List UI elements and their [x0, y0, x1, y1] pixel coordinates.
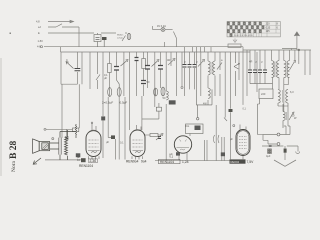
svg-text:REN1104: REN1104 — [160, 160, 174, 164]
svg-text:4-8: 4-8 — [37, 45, 41, 49]
svg-text:9o4: 9o4 — [141, 160, 147, 164]
svg-text:REN1104: REN1104 — [79, 164, 93, 168]
svg-text:7,5V: 7,5V — [247, 160, 255, 164]
svg-text:0,5µF: 0,5µF — [120, 101, 128, 105]
svg-text:2×0,5µF: 2×0,5µF — [102, 101, 113, 105]
svg-text:220: 220 — [261, 92, 266, 96]
svg-text:µF: µF — [104, 76, 107, 80]
svg-text:2,36: 2,36 — [90, 159, 97, 163]
svg-text:4R: 4R — [249, 60, 252, 64]
svg-text:4,8: 4,8 — [36, 20, 40, 24]
svg-text:1-50: 1-50 — [38, 39, 44, 43]
svg-text:B 28: B 28 — [9, 141, 19, 159]
svg-text:schalt.: schalt. — [117, 37, 123, 40]
svg-text:6,3: 6,3 — [290, 90, 294, 94]
svg-text:0,1: 0,1 — [170, 155, 174, 159]
svg-text:REN9o4: REN9o4 — [126, 160, 139, 164]
svg-text:1,28: 1,28 — [182, 160, 189, 164]
svg-text:Dro: Dro — [185, 124, 190, 128]
svg-text:220: 220 — [266, 23, 271, 26]
svg-text:4µF: 4µF — [266, 154, 271, 158]
svg-text:4R: 4R — [167, 58, 170, 62]
svg-text:4V 0,2A: 4V 0,2A — [157, 25, 166, 28]
svg-text:125: 125 — [266, 30, 271, 33]
svg-text:Wellen: Wellen — [117, 35, 124, 37]
svg-text:0,35: 0,35 — [266, 26, 271, 29]
svg-text:a-f: a-f — [38, 25, 41, 29]
svg-text:C: C — [66, 58, 68, 62]
svg-text:Nora: Nora — [11, 160, 17, 172]
svg-text:E: E — [38, 31, 40, 35]
svg-text:µF: µF — [106, 140, 109, 144]
svg-text:0,1: 0,1 — [120, 141, 124, 145]
svg-text:RE604: RE604 — [231, 160, 240, 164]
svg-text:24 42 2,4 110 ≈220: 24 42 2,4 110 ≈220 — [234, 34, 253, 37]
